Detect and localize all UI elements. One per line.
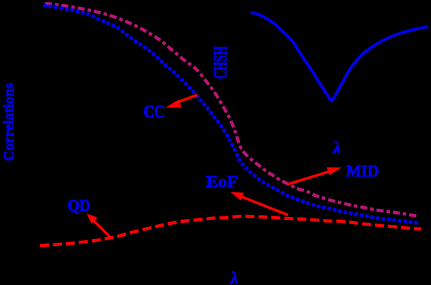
curve CC (blue dotted, main plot) <box>45 6 418 224</box>
svg-text:EoF: EoF <box>206 172 238 191</box>
arrow to MID label <box>287 167 342 184</box>
arrow to CC label <box>166 95 198 108</box>
arrow to EoF label <box>231 192 289 215</box>
inset curve CHSH vs lambda (blue solid) <box>251 13 429 101</box>
svg-text:CHSH: CHSH <box>211 46 232 79</box>
svg-text:QD: QD <box>68 196 91 215</box>
arrow to QD label <box>87 214 111 238</box>
curve QD / EoF (red dashed, main plot) <box>40 216 421 245</box>
svg-text:λ: λ <box>230 269 239 285</box>
curve MID (magenta dash-dot, main plot) <box>45 4 419 217</box>
svg-text:λ: λ <box>332 139 341 158</box>
svg-text:Correlations: Correlations <box>2 83 18 161</box>
svg-text:MID: MID <box>346 162 379 181</box>
svg-text:CC: CC <box>144 102 166 122</box>
